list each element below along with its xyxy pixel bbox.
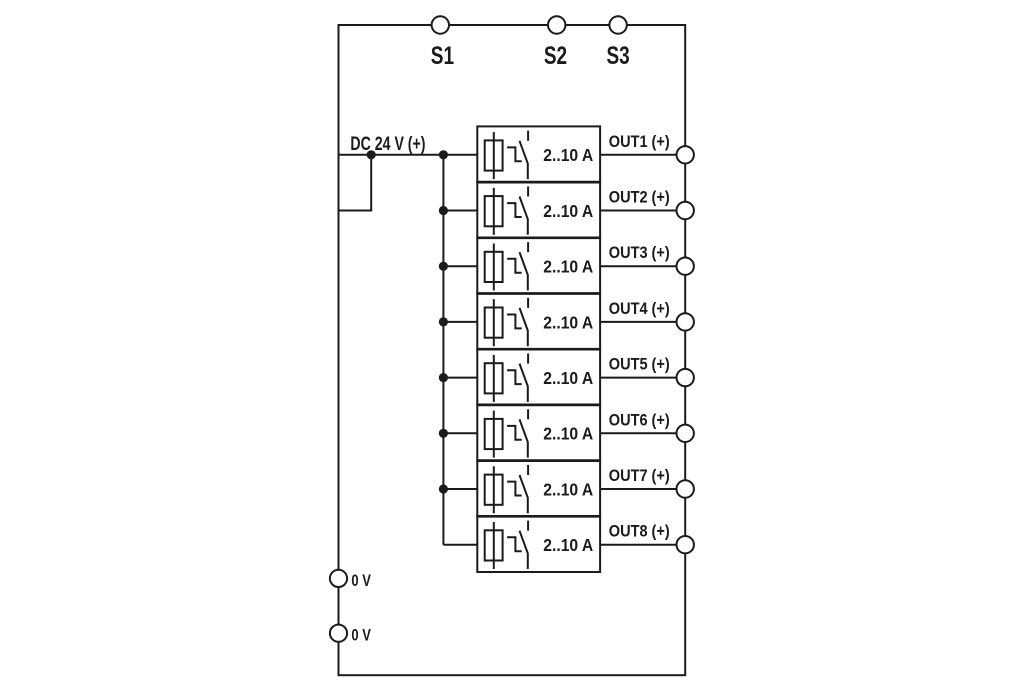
svg-text:DC 24 V (+): DC 24 V (+)	[350, 132, 425, 155]
svg-text:0 V: 0 V	[351, 626, 371, 645]
svg-text:2..10 A: 2..10 A	[543, 535, 593, 555]
svg-text:OUT4 (+): OUT4 (+)	[609, 300, 670, 318]
svg-text:S3: S3	[606, 42, 629, 70]
svg-text:OUT3 (+): OUT3 (+)	[609, 244, 670, 262]
svg-text:2..10 A: 2..10 A	[543, 368, 593, 388]
svg-text:2..10 A: 2..10 A	[543, 257, 593, 277]
svg-text:OUT5 (+): OUT5 (+)	[609, 356, 670, 374]
svg-text:2..10 A: 2..10 A	[543, 312, 593, 332]
svg-text:0 V: 0 V	[351, 571, 371, 590]
svg-text:2..10 A: 2..10 A	[543, 201, 593, 221]
svg-text:2..10 A: 2..10 A	[543, 480, 593, 500]
svg-text:OUT1 (+): OUT1 (+)	[609, 133, 670, 151]
svg-text:2..10 A: 2..10 A	[543, 145, 593, 165]
svg-text:S1: S1	[431, 42, 454, 70]
svg-text:OUT6 (+): OUT6 (+)	[609, 411, 670, 429]
svg-text:OUT8 (+): OUT8 (+)	[609, 523, 670, 541]
svg-text:OUT2 (+): OUT2 (+)	[609, 189, 670, 207]
svg-text:S2: S2	[544, 42, 567, 70]
svg-text:2..10 A: 2..10 A	[543, 424, 593, 444]
svg-text:OUT7 (+): OUT7 (+)	[609, 467, 670, 485]
